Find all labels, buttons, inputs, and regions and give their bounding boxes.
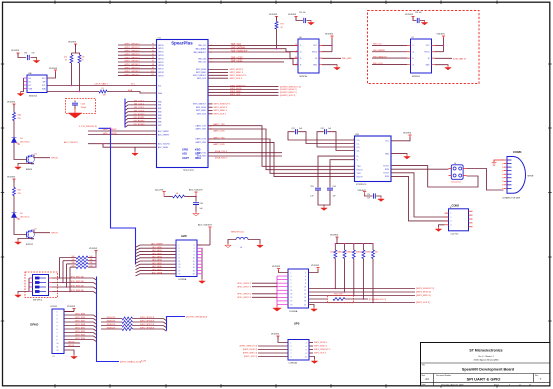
svg-text:4: 4: [306, 346, 307, 348]
bus: GPIO switch bus with off-page label: [97, 277, 142, 364]
svg-text:SMI_CLK: SMI_CLK: [198, 45, 206, 47]
svg-text:SMI_CS0: SMI_CS0: [198, 59, 206, 61]
svg-text:C1+: C1+: [357, 140, 360, 142]
svg-text:KB4: KB4: [158, 115, 161, 117]
svg-text:5: 5: [291, 279, 292, 281]
svg-text:5: 5: [291, 349, 292, 351]
svg-text:9: 9: [291, 356, 292, 358]
svg-text:GPIO_GPIO3 2: GPIO_GPIO3 2: [124, 54, 140, 56]
wires: CON12 rows 10-11 stubs: [64, 342, 80, 348]
svg-text:SDA: SDA: [128, 89, 133, 92]
svg-text:2: 2: [194, 245, 195, 247]
svg-text:GPIO_SW2: GPIO_SW2: [75, 331, 85, 333]
svg-text:VDD3V3: VDD3V3: [49, 68, 58, 70]
svg-text:VDD3V3: VDD3V3: [437, 33, 446, 35]
svg-text:VDD3V3: VDD3V3: [403, 132, 412, 134]
U33 VCC and GND wiring: [391, 132, 412, 159]
svg-text:SpearVS: SpearVS: [155, 188, 164, 191]
flash memory U6 M25P64: [295, 37, 322, 78]
svg-text:SW3B 15K: SW3B 15K: [107, 324, 117, 326]
svg-text:SSP2_MOSI: SSP2_MOSI: [230, 88, 242, 90]
svg-text:GPIO_GPIO6 2: GPIO_GPIO6 2: [124, 64, 140, 66]
svg-text:UART2_TXD: UART2_TXD: [196, 138, 207, 141]
svg-text:Spear600 Development Board: Spear600 Development Board: [462, 368, 515, 372]
svg-text:VDD3V3: VDD3V3: [7, 177, 16, 179]
connector CON2 serial select: [445, 203, 473, 235]
svg-text:6: 6: [194, 251, 195, 253]
svg-text:KB_COL3: KB_COL3: [134, 110, 145, 112]
svg-text:SSP2_SCK 5: SSP2_SCK 5: [230, 78, 243, 80]
svg-text:Document Number: Document Number: [436, 374, 451, 377]
svg-text:KB_COL0: KB_COL0: [134, 100, 145, 102]
svg-text:VDD3V3: VDD3V3: [68, 41, 77, 43]
A2D right-side power and ground rail: [197, 224, 212, 284]
dashed DNP option box for second flash: [368, 11, 480, 84]
svg-text:GPIO5: GPIO5: [158, 62, 164, 64]
svg-text:SSP2_SCK: SSP2_SCK: [197, 78, 207, 80]
svg-text:KB_ROW3: KB_ROW3: [134, 124, 145, 126]
svg-text:GPIO_SW4: GPIO_SW4: [75, 338, 85, 340]
svg-text:C91 1uF: C91 1uF: [299, 12, 305, 14]
svg-text:GPIO_GPIO5 2: GPIO_GPIO5 2: [124, 61, 140, 63]
connector CON20A SP2 header: [288, 269, 309, 313]
svg-text:KB_COL2: KB_COL2: [134, 107, 145, 109]
svg-text:VDD3V3: VDD3V3: [271, 333, 280, 335]
svg-text:KB_ROW1: KB_ROW1: [134, 117, 145, 119]
svg-text:15: 15: [291, 297, 293, 299]
svg-text:KBD: KBD: [195, 149, 201, 152]
svg-text:J6: J6: [450, 207, 452, 209]
note label: [141, 361, 146, 363]
bus: GPIO[8:4] bus to off-page: [167, 317, 208, 331]
svg-text:19: 19: [179, 274, 181, 276]
wire: SCL net from EEPROM to SpearPlus: [47, 82, 162, 87]
svg-text:UART: UART: [182, 157, 189, 160]
svg-text:GPIO_SW8: GPIO_SW8: [75, 324, 85, 326]
svg-text:KB_ROW2: KB_ROW2: [134, 121, 145, 123]
svg-text:VDD3V3: VDD3V3: [272, 266, 281, 268]
svg-text:BCR112: BCR112: [26, 244, 33, 246]
wires: pull-ups down to DIP rows: [59, 258, 71, 293]
svg-text:12: 12: [304, 290, 306, 292]
svg-text:UART1_TXD: UART1_TXD: [213, 123, 225, 126]
svg-text:VDD3V3: VDD3V3: [89, 248, 98, 250]
svg-text:GPIO9: GPIO9: [158, 75, 164, 77]
svg-text:10: 10: [305, 356, 307, 358]
svg-text:VDD3V3: VDD3V3: [311, 265, 320, 267]
svg-text:SMI_DATAOUT: SMI_DATAOUT: [373, 55, 388, 58]
svg-text:18: 18: [193, 270, 195, 272]
svg-text:7: 7: [179, 254, 180, 256]
svg-text:P4: P4: [152, 50, 154, 52]
svg-text:[3:6TH2_GPIO[8:4] 2]: [3:6TH2_GPIO[8:4] 2]: [186, 317, 208, 319]
svg-text:3: 3: [57, 318, 58, 320]
svg-text:VDD3V3: VDD3V3: [330, 234, 339, 236]
svg-text:SMI_CS1: SMI_CS1: [198, 62, 206, 64]
wire: CON12 pin1 to VDD3V3: [64, 309, 74, 312]
svg-text:UART1_RXD: UART1_RXD: [195, 128, 206, 131]
svg-text:R77: R77: [281, 24, 284, 26]
svg-text:2: 2: [305, 272, 306, 274]
svg-text:Thursday, April 23, 2009: Thursday, April 23, 2009: [441, 383, 464, 386]
resistor R147 DNP to POWERGOOD: [309, 293, 387, 302]
svg-text:C94: C94: [333, 186, 336, 188]
svg-text:SSP1_SSNOUT: SSP1_SSNOUT: [193, 104, 207, 106]
svg-text:ADC_AIN4: ADC_AIN4: [152, 259, 161, 262]
svg-text:C95: C95: [367, 194, 370, 196]
svg-text:T2OUT: T2OUT: [383, 173, 390, 175]
svg-text:3: 3: [451, 221, 452, 223]
capacitor C94 on V- with ground: [321, 160, 355, 211]
svg-text:8: 8: [306, 353, 307, 355]
svg-text:18: 18: [304, 301, 306, 303]
svg-text:GPIO0: GPIO0: [158, 45, 164, 47]
svg-text:SMI_nCS1: SMI_nCS1: [373, 63, 384, 65]
svg-text:SW DIP-4: SW DIP-4: [33, 300, 43, 302]
VDD3V3 to CON20A pin2: [309, 265, 320, 273]
wires: keyboard KB pin rows with bus entries: [125, 100, 161, 127]
svg-text:UART2_RXD: UART2_RXD: [213, 143, 225, 146]
connector COM1 DB9: [502, 150, 534, 199]
svg-text:GPIO_SW3 10K: GPIO_SW3 10K: [70, 286, 85, 288]
svg-text:4: 4: [57, 322, 58, 324]
svg-text:GPIO_SW7: GPIO_SW7: [75, 321, 85, 323]
svg-text:4: 4: [194, 248, 195, 250]
svg-text:VDD3V3: VDD3V3: [7, 102, 16, 104]
svg-text:GPIO6: GPIO6: [158, 65, 164, 67]
svg-text:4: 4: [502, 170, 503, 172]
svg-text:6: 6: [57, 329, 58, 331]
svg-text:SCL: SCL: [158, 85, 162, 87]
svg-text:[GSSP2_SSNOUT1 2]: [GSSP2_SSNOUT1 2]: [280, 86, 301, 88]
RS232 transceiver U33 ST3232CD: [353, 134, 391, 186]
svg-text:SW1B 15K: SW1B 15K: [107, 317, 117, 319]
svg-text:D3: D3: [20, 138, 22, 140]
svg-text:VDD3V3: VDD3V3: [11, 50, 20, 52]
wires: ADC_VDD2V5 and ADC_VSSA rows with ground: [64, 141, 170, 156]
svg-text:GPIO5: GPIO5: [51, 233, 58, 235]
svg-text:ADC_AIN5: ADC_AIN5: [152, 262, 161, 265]
svg-text:SSP2_MISO: SSP2_MISO: [196, 72, 207, 74]
svg-text:VDD3V3: VDD3V3: [269, 14, 278, 16]
power VDD3V3 to U30 VCC: [47, 68, 58, 78]
wires: CON10A right net stubs: [309, 342, 331, 355]
svg-text:W: W: [315, 58, 317, 60]
svg-text:SSP1_SCK: SSP1_SCK: [197, 114, 207, 116]
svg-text:12: 12: [57, 350, 59, 352]
svg-text:ADC_AIN0: ADC_AIN0: [152, 246, 161, 249]
svg-text:NFM21PC104: NFM21PC104: [231, 231, 245, 233]
svg-text:T1OUT: T1OUT: [383, 165, 390, 167]
svg-text:GPIO_SW1: GPIO_SW1: [75, 328, 85, 330]
label SP2: [294, 322, 300, 326]
svg-text:KB2: KB2: [158, 108, 161, 110]
svg-text:UART2_TXD: UART2_TXD: [213, 137, 225, 140]
svg-text:3: 3: [291, 346, 292, 348]
svg-text:[POWERGOOD 2]: [POWERGOOD 2]: [369, 299, 387, 301]
svg-text:J4: J4: [454, 163, 456, 165]
svg-text:Title: Title: [422, 364, 425, 367]
svg-text:Date:: Date:: [422, 383, 427, 386]
svg-text:KB_ROW0: KB_ROW0: [134, 114, 145, 116]
svg-text:D4: D4: [20, 213, 22, 215]
svg-text:13: 13: [291, 294, 293, 296]
svg-text:SW4B 15K: SW4B 15K: [107, 328, 117, 330]
svg-text:M25P64: M25P64: [412, 76, 421, 78]
wires: CON10A left rows: [240, 346, 288, 359]
svg-text:11: 11: [57, 346, 59, 348]
svg-text:ADC_VREFN: ADC_VREFN: [158, 133, 170, 136]
svg-text:IRDA_TXD: IRDA_TXD: [197, 151, 207, 154]
svg-text:1: 1: [179, 245, 180, 247]
svg-text:SP2: SP2: [294, 322, 300, 326]
svg-text:KB6: KB6: [158, 122, 161, 124]
svg-text:GPIO_GPIO7 2: GPIO_GPIO7 2: [237, 286, 252, 288]
svg-text:ADC_VDD2V5: ADC_VDD2V5: [64, 141, 78, 144]
resistor R5 in SDA line: [47, 88, 162, 96]
bus: keyboard column bus: [124, 99, 126, 128]
svg-text:6: 6: [502, 177, 503, 179]
wires: SSP1 pin rows with net labels: [193, 104, 231, 116]
svg-text:1: 1: [291, 272, 292, 274]
svg-text:SMI_DATAIN: SMI_DATAIN: [373, 49, 385, 52]
svg-text:C1-: C1-: [357, 143, 360, 145]
bus: WKUP / ADC bus to A2D header: [79, 126, 136, 265]
svg-text:R2OUT: R2OUT: [357, 176, 364, 178]
svg-text:V+: V+: [357, 156, 359, 158]
svg-text:17: 17: [291, 301, 293, 303]
wires: IRDA pin rows: [197, 150, 282, 159]
svg-text:[SSP2_SSNOUT 2]: [SSP2_SSNOUT 2]: [416, 288, 434, 290]
U7 right side power wiring: [435, 33, 466, 70]
ground for CON2: [435, 225, 444, 232]
svg-text:R56: R56: [358, 252, 361, 254]
wires: UART1/UART2 rows from SpearPlus to ST3232: [195, 123, 354, 176]
switch SW1 DIP-4 in dashed box: [25, 272, 58, 302]
svg-text:9: 9: [291, 287, 292, 289]
svg-text:Rev: Rev: [535, 375, 538, 377]
svg-text:L2: L2: [210, 59, 212, 61]
svg-text:HOLD: HOLD: [425, 52, 431, 54]
svg-text:SSP2_SSNOUT1: SSP2_SSNOUT1: [230, 85, 247, 87]
svg-text:GPIO_GPIO8 2: GPIO_GPIO8 2: [124, 71, 140, 73]
svg-text:C2+: C2+: [357, 147, 360, 149]
VDD3V3 to CON10A pin1: [271, 333, 288, 342]
svg-text:2: 2: [57, 315, 58, 317]
capacitor C93 on V+: [310, 156, 354, 205]
svg-text:[GPIO_GPIO6 4]: [GPIO_GPIO6 4]: [140, 321, 155, 323]
svg-text:L2: L2: [210, 52, 212, 54]
svg-text:SSP1_SCK 5: SSP1_SCK 5: [214, 114, 227, 116]
ground for CON10A: [309, 357, 318, 364]
svg-text:P3: P3: [152, 47, 154, 49]
svg-text:4: 4: [451, 225, 452, 227]
svg-text:VDD3V3: VDD3V3: [288, 14, 297, 16]
svg-text:GPIO_GPIO9 2: GPIO_GPIO9 2: [124, 74, 140, 76]
svg-text:VDD3V3: VDD3V3: [325, 33, 334, 35]
svg-text:GPIO1: GPIO1: [158, 48, 164, 50]
svg-text:A2D: A2D: [181, 234, 187, 238]
svg-text:R55: R55: [349, 252, 352, 254]
svg-text:Com Sel: Com Sel: [451, 234, 459, 236]
svg-text:C99 1uF: C99 1uF: [415, 12, 421, 14]
svg-text:SCL: SCL: [42, 85, 46, 87]
svg-text:A2D: A2D: [182, 153, 187, 156]
svg-text:VDD3V3: VDD3V3: [405, 14, 414, 16]
svg-text:10: 10: [57, 343, 59, 345]
svg-text:KB_COL1: KB_COL1: [134, 104, 145, 106]
svg-text:P2: P2: [152, 44, 154, 46]
wire: J4 to COM1 DB9: [467, 169, 504, 191]
svg-text:[SSP2_SCK 2]: [SSP2_SCK 2]: [416, 302, 430, 304]
svg-text:P7: P7: [152, 61, 154, 63]
svg-text:6,5,W: 6,5,W: [141, 361, 146, 363]
svg-text:GND: GND: [426, 64, 431, 66]
svg-text:IRDA_TXD 5: IRDA_TXD 5: [215, 150, 228, 153]
svg-text:CON2: CON2: [452, 203, 460, 207]
svg-text:5.7 W_WKUP(1.8): 5.7 W_WKUP(1.8): [79, 126, 97, 128]
svg-text:8: 8: [194, 254, 195, 256]
svg-text:SMI_nCS1: SMI_nCS1: [231, 60, 243, 63]
svg-text:GPIO_SW5: GPIO_SW5: [75, 314, 85, 316]
svg-text:7: 7: [291, 283, 292, 285]
svg-text:20: 20: [193, 274, 195, 276]
svg-text:SSP1_MISO 5: SSP1_MISO 5: [214, 110, 228, 112]
svg-text:ADC_AIN6: ADC_AIN6: [152, 265, 161, 268]
capacitor C91 decoupling for U6: [288, 12, 314, 25]
svg-text:P8: P8: [152, 64, 154, 66]
svg-text:GPIO_GPIO9 2: GPIO_GPIO9 2: [237, 297, 252, 299]
svg-text:SMI_CLK: SMI_CLK: [373, 44, 382, 46]
svg-text:R5: R5: [102, 88, 104, 90]
svg-text:ADC_VSSA: ADC_VSSA: [152, 272, 163, 275]
svg-text:1uF: 1uF: [367, 198, 370, 200]
svg-text:C98: C98: [200, 203, 203, 205]
svg-text:LED Yellow: LED Yellow: [20, 142, 30, 144]
svg-text:ADC_VDD2V5: ADC_VDD2V5: [189, 189, 203, 192]
svg-text:GPIO4: GPIO4: [158, 58, 164, 60]
svg-text:6: 6: [305, 279, 306, 281]
svg-text:M25P64: M25P64: [300, 76, 309, 78]
svg-text:GPIO11: GPIO11: [68, 345, 74, 347]
svg-text:1: 1: [291, 342, 292, 344]
svg-text:GPIO6: GPIO6: [51, 158, 58, 160]
wires: SSP2 alternate pin rows to off-page labels: [208, 85, 301, 97]
svg-text:HOLD: HOLD: [312, 52, 318, 54]
wires: CON20A left GPIO label rows: [237, 283, 277, 299]
capacitor C145 DNP in dashed box: [66, 99, 96, 119]
svg-text:3: 3: [291, 276, 292, 278]
svg-text:A4: A4: [425, 377, 429, 381]
svg-text:SSP1_MOSI: SSP1_MOSI: [196, 107, 207, 109]
svg-text:1: 1: [451, 213, 452, 215]
svg-text:15: 15: [179, 267, 181, 269]
svg-text:8: 8: [57, 336, 58, 338]
svg-text:P5: P5: [152, 54, 154, 56]
svg-text:C2-: C2-: [357, 150, 360, 152]
svg-text:M24C64: M24C64: [29, 95, 38, 97]
svg-text:[GPIO_GPIO7 4]: [GPIO_GPIO7 4]: [140, 324, 155, 326]
capacitor C95 decoupling U33: [358, 190, 385, 202]
svg-text:GPIO8: GPIO8: [158, 72, 164, 74]
svg-text:BSN20: BSN20: [26, 169, 32, 171]
connector CON10A SSP1 header: [288, 340, 309, 365]
svg-text:SpearPlus: SpearPlus: [171, 41, 193, 46]
svg-text:GPIO_SW1 10K: GPIO_SW1 10K: [70, 277, 85, 279]
svg-text:C96: C96: [24, 53, 27, 55]
svg-text:3: 3: [179, 248, 180, 250]
svg-text:SMI_DATAOUT: SMI_DATAOUT: [231, 50, 248, 53]
svg-text:14: 14: [193, 264, 195, 266]
svg-text:17: 17: [179, 270, 181, 272]
wires: DIP switch rows to GPIO bus: [52, 277, 97, 294]
svg-text:1: 1: [57, 311, 58, 313]
svg-text:R60: R60: [18, 114, 21, 116]
svg-text:KB7: KB7: [158, 125, 161, 127]
ground for CON12 pin12: [64, 350, 77, 359]
svg-text:SPEAr600: SPEAr600: [183, 169, 194, 172]
svg-text:KB1: KB1: [158, 105, 161, 107]
capacitor C96 decoupling: [11, 50, 40, 63]
svg-text:CONNECTOR DB9: CONNECTOR DB9: [502, 197, 521, 199]
title block: [421, 343, 550, 387]
svg-text:SSP1_SSNOUT 5: SSP1_SSNOUT 5: [314, 349, 331, 351]
svg-text:ADC_AIN3: ADC_AIN3: [152, 256, 161, 259]
svg-text:10: 10: [193, 258, 195, 260]
wires: T1OUT loop to jumper J4: [391, 166, 478, 187]
svg-text:M9S/E: M9S/E: [528, 176, 535, 178]
svg-text:GPIO_SW2 10K: GPIO_SW2 10K: [70, 281, 85, 283]
LED indicator cluster D3/Q4: [7, 102, 58, 172]
svg-text:SMI_DATAOUT: SMI_DATAOUT: [193, 51, 206, 54]
svg-text:6: 6: [306, 349, 307, 351]
svg-text:7: 7: [502, 181, 503, 183]
ground for CON20A: [309, 305, 318, 312]
svg-text:P11: P11: [151, 74, 154, 76]
svg-text:7: 7: [57, 332, 58, 334]
svg-text:KB0: KB0: [158, 101, 161, 103]
svg-text:GPIO2: GPIO2: [158, 52, 164, 54]
svg-text:470: 470: [82, 57, 85, 59]
svg-text:GPIO_GPIO1 2: GPIO_GPIO1 2: [124, 47, 140, 49]
capacitor C97 charge pump: [288, 128, 355, 144]
svg-text:750: 750: [18, 118, 21, 120]
svg-text:UART2_RXD: UART2_RXD: [195, 141, 206, 144]
resistor and capacitor C98 SpearVS filter: [155, 188, 203, 216]
svg-text:9: 9: [179, 258, 180, 260]
svg-text:SSP2_MOSI: SSP2_MOSI: [196, 69, 207, 71]
svg-text:UART1_TXD: UART1_TXD: [196, 124, 207, 127]
svg-text:GPIO_GPIO4 2: GPIO_GPIO4 2: [124, 57, 140, 59]
svg-text:8: 8: [305, 283, 306, 285]
svg-text:[GPIO_GPIO5 4]: [GPIO_GPIO5 4]: [140, 317, 155, 319]
svg-text:GPIO3: GPIO3: [158, 55, 164, 57]
svg-text:SMI_DATAIN: SMI_DATAIN: [195, 48, 206, 51]
svg-text:SSP1_MISO 5: SSP1_MISO 5: [314, 346, 328, 348]
svg-text:SW2B 15K: SW2B 15K: [107, 321, 117, 323]
svg-text:GPIO_SW4 10K: GPIO_SW4 10K: [70, 290, 85, 292]
svg-text:COM1: COM1: [513, 150, 522, 154]
svg-text:UART1_RXD: UART1_RXD: [213, 130, 225, 133]
svg-text:8: 8: [502, 185, 503, 187]
svg-text:R53: R53: [330, 252, 333, 254]
svg-text:9: 9: [502, 188, 503, 190]
svg-text:[GSSP2_SCK 2]: [GSSP2_SCK 2]: [280, 95, 296, 97]
svg-text:GPI/O: GPI/O: [30, 322, 39, 326]
svg-text:P6: P6: [152, 57, 154, 59]
svg-text:ADC_AIN1: ADC_AIN1: [152, 249, 161, 252]
svg-text:CXCP_VAR 3: CXCP_VAR 3: [94, 82, 108, 85]
